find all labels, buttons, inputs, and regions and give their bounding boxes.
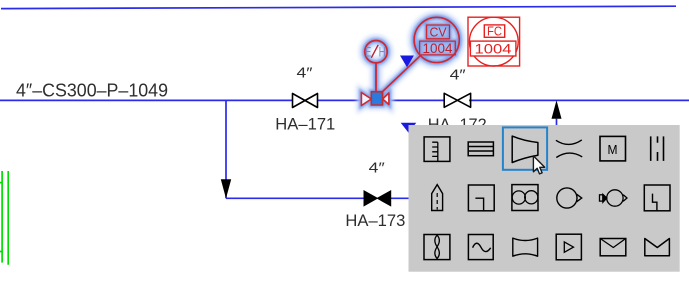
actuator square (blue fill) [371,92,382,105]
palette icon motor M [600,136,626,161]
gap under valve HA-171 [293,98,317,103]
svg-text:CV: CV [430,25,447,40]
svg-text:H: H [379,45,386,60]
instrument bubble CV 1004 [414,17,459,62]
palette icon twin circles [512,185,538,211]
palette icon crossed curves [556,140,582,158]
svg-text:1004: 1004 [423,40,453,56]
svg-text:4″: 4″ [369,160,386,177]
wire main pipe line [0,99,689,101]
wire top pipe line [1,6,676,8]
wire branch horizontal line at HA-173 [226,197,409,199]
svg-text:4″: 4″ [450,67,467,84]
palette icon pump circle [557,188,582,208]
valve HA-172 [444,93,470,107]
leader line to CV bubble [381,56,420,93]
palette icon trap [644,185,670,211]
gap under valve HA-173 [364,196,391,201]
svg-text:HA–171: HA–171 [275,115,335,134]
svg-text:1004: 1004 [475,41,512,57]
palette icon three bars [651,136,664,161]
palette icon envelope [600,239,626,256]
valve wings [361,93,371,106]
palette icon ruler [424,137,450,162]
palette icon open envelope [645,239,670,256]
svg-text:E: E [365,45,371,60]
valve HA-171 [293,94,318,108]
gap under valve HA-172 [445,98,469,103]
palette popup panel [409,125,680,272]
palette icon sine wave box [468,235,493,260]
svg-text:FC: FC [487,23,502,38]
palette selected icon horn with selection box [503,127,547,169]
drain triangle below pipe (left of palette) [401,123,417,133]
svg-text:4″–CS300–P–1049: 4″–CS300–P–1049 [16,81,168,101]
drain triangle near CV bubble [400,56,414,68]
wire branch vertical line to HA-173 [225,101,227,198]
instrument FC-1004 (red) [468,17,520,66]
stem to E/H [375,63,377,92]
svg-text:HA–173: HA–173 [345,211,405,230]
palette icon expansion joint [513,238,538,256]
mouse cursor [533,156,544,174]
valve HA-173 (filled) [364,191,391,206]
palette icon square with step [468,185,494,211]
selected control valve CV-1004 group : glow underlay [361,17,459,105]
palette icon plates [468,142,493,156]
palette icon ejector [600,190,628,206]
flow arrow down at branch corner [221,179,231,198]
flow arrow up into main pipe at x=556 [556,119,558,126]
palette icon hourglass-8 box [424,235,450,260]
palette icon play box [556,234,581,260]
control valve CV-1004 body [361,17,459,105]
svg-text:4″: 4″ [297,64,314,81]
svg-text:M: M [608,142,618,157]
instrument bubble E/H [365,41,387,63]
green battery-limit lines bottom left [0,171,8,265]
palette icon vessel [432,185,443,211]
